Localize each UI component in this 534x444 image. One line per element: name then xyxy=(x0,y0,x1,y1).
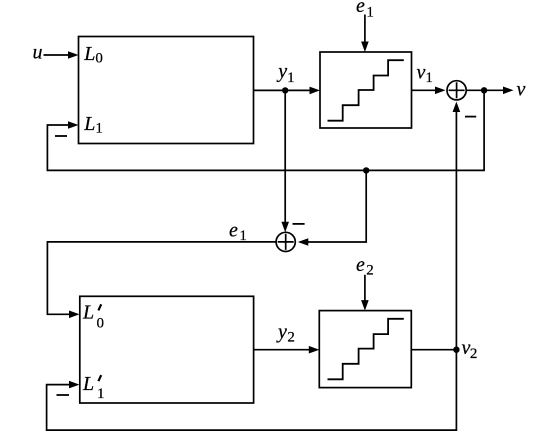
svg-text:L0: L0 xyxy=(83,43,103,66)
junction dot v2 xyxy=(453,347,459,353)
minus sign at L1 input xyxy=(55,135,67,137)
wire v feedback down-left-up to L1 xyxy=(47,90,484,170)
arrowhead e2 into Q2 top xyxy=(361,300,369,311)
wire S1 to v output xyxy=(466,89,504,91)
wire y2 from block to Q2 xyxy=(254,349,312,351)
svg-text:y1: y1 xyxy=(276,61,294,87)
wire v2 from Q2 to v2 node xyxy=(411,349,456,351)
svg-text:L1: L1 xyxy=(83,113,103,137)
svg-text:0: 0 xyxy=(97,315,105,331)
svg-text:v1: v1 xyxy=(417,62,433,86)
svg-text:e2: e2 xyxy=(356,254,374,279)
arrowhead y1 down into S2 top xyxy=(281,222,289,233)
summing junction S2 plus sign xyxy=(278,234,294,250)
wire v2 feedback down-left-up to L1' xyxy=(47,350,457,430)
svg-text:v2: v2 xyxy=(462,337,478,362)
quantizer Q1 staircase xyxy=(328,60,404,120)
wire y1 branch down to S2 xyxy=(284,90,286,224)
arrowhead v2 feedback into L1' xyxy=(69,381,80,389)
arrowhead into S2 right xyxy=(298,238,309,246)
minus sign at S2 top input xyxy=(293,223,305,225)
block L0'/L1' stage-2 loop filter xyxy=(80,296,254,403)
svg-text:u: u xyxy=(33,41,43,63)
wire v1 from Q1 to S1 xyxy=(412,89,439,91)
minus sign at S1 bottom input xyxy=(465,116,476,118)
wire u input xyxy=(44,54,71,56)
svg-text:L: L xyxy=(82,302,94,324)
arrowhead v feedback into L1 xyxy=(68,121,79,129)
junction dot v xyxy=(481,87,487,93)
wire branch from v feedback down to S2 right input xyxy=(306,170,367,242)
block L0/L1 stage-1 loop filter xyxy=(79,37,254,144)
summing junction S1 circle xyxy=(447,81,466,100)
svg-text:1: 1 xyxy=(97,386,105,402)
junction dot on v feedback xyxy=(363,167,369,173)
arrowhead u into L0 xyxy=(68,51,79,59)
summing junction S1 plus sign xyxy=(449,82,465,98)
svg-text:v: v xyxy=(517,79,526,101)
quantizer Q1 box xyxy=(320,52,412,128)
arrowhead e1 into Q1 top xyxy=(361,42,369,53)
svg-text:L: L xyxy=(82,373,94,395)
wire v2 up to S1 bottom xyxy=(455,109,457,350)
junction dot y1 xyxy=(282,87,288,93)
minus sign at L1' input xyxy=(57,394,70,396)
wire e2 into Q2 top xyxy=(364,275,366,303)
svg-text:y2: y2 xyxy=(276,321,295,345)
quantizer Q2 staircase xyxy=(328,319,404,380)
quantizer Q2 box xyxy=(319,311,411,388)
wire y1 from block to Q1 xyxy=(254,89,313,91)
summing junction S2 circle (e1) xyxy=(276,232,295,251)
arrowhead y1 into Q1 xyxy=(310,87,321,95)
wire e1 from S2 output left-down to L0' input xyxy=(47,242,276,314)
arrowhead v2 up into S1 bottom xyxy=(453,102,461,113)
svg-text:e1: e1 xyxy=(229,220,247,245)
arrowhead v1 into S1 xyxy=(435,87,446,95)
arrowhead e1 into L0' xyxy=(69,311,80,319)
wire e1 into Q1 top xyxy=(364,15,366,44)
arrowhead v output xyxy=(503,87,514,95)
arrowhead y2 into Q2 xyxy=(309,346,320,354)
